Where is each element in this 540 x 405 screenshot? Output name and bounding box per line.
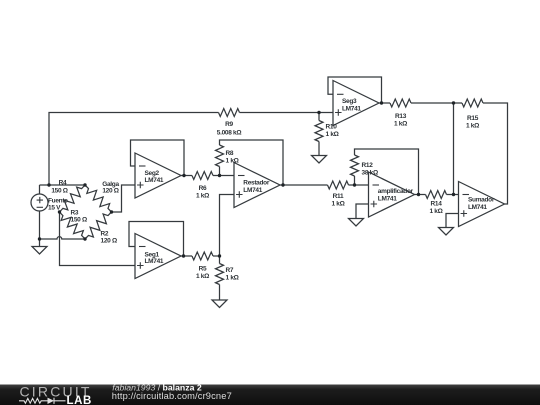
junction dot R5/R7 node [218,254,221,257]
junction dot Sumador - node [452,193,455,196]
wire Seg2 output to R6 [181,175,192,177]
svg-text:1 kΩ: 1 kΩ [196,273,209,280]
wire bridge left vertex down to Seg1 + [60,212,136,266]
resistor R3 (bridge bottom-left) [60,212,86,239]
op-amp amplificador [369,172,415,217]
resistor R8 with feedback loop [216,140,284,185]
svg-text:R2: R2 [101,231,109,238]
svg-text:R15: R15 [467,115,479,122]
resistor R6 [192,172,213,180]
svg-text:R4: R4 [59,180,67,187]
svg-text:R12: R12 [362,162,374,169]
wire amplificador + to ground [356,204,369,219]
wire source top to bridge top vertex [40,184,86,186]
junction dot bridge left vertex [58,210,61,213]
voltage source V1 Fuente [31,185,48,239]
wire Sumador + to ground [446,214,459,228]
svg-text:150 Ω: 150 Ω [51,188,67,195]
svg-text:LM741: LM741 [468,204,487,211]
wire R13 to node [411,102,454,104]
wire node to R15 and down right edge to Sumador output [454,103,508,204]
op-amp Sumador [459,182,505,227]
svg-text:LM741: LM741 [378,196,397,203]
junction dot Seg2 output [182,174,185,177]
ground below R10 [312,156,327,164]
op-amp Seg3 [333,81,379,126]
svg-text:5.008 kΩ: 5.008 kΩ [217,130,242,137]
wire R6 to Restador - input [213,175,234,177]
svg-text:1 kΩ: 1 kΩ [429,208,442,215]
resistor Galga (bridge top-right) [85,185,112,212]
CircuitLab logo resistor-diode icon [19,398,66,404]
svg-text:R6: R6 [199,185,207,192]
svg-text:R9: R9 [225,121,233,128]
svg-text:1 kΩ: 1 kΩ [226,275,239,282]
resistor R4 (bridge top-left) [60,185,86,212]
svg-text:1 kΩ: 1 kΩ [196,193,209,200]
resistor R14 [426,191,447,199]
svg-text:1 kΩ: 1 kΩ [394,121,407,128]
wire R14 to Sumador - input [447,194,459,196]
svg-text:Seg3: Seg3 [342,98,357,105]
Seg2 feedback loop wire [131,140,185,176]
svg-text:R14: R14 [430,201,442,208]
CircuitLab logo diode triangle [48,398,55,404]
resistor R13 [390,99,411,107]
resistor R11 [328,181,349,189]
junction dot bridge bottom vertex [83,237,86,240]
svg-text:R7: R7 [226,267,234,274]
svg-text:1 kΩ: 1 kΩ [226,158,239,165]
svg-text:R11: R11 [333,193,344,200]
svg-text:150 Ω: 150 Ω [71,217,87,224]
footer bar [0,385,540,405]
svg-text:120 Ω: 120 Ω [102,188,118,195]
ground below Sumador + [439,228,454,236]
svg-text:120 Ω: 120 Ω [101,238,117,245]
op-amp Seg1 [135,234,181,279]
junction dot riser/bridge-top-wire [47,183,50,186]
resistor R12 with feedback loop [351,149,419,195]
junction dot R9/R10 node [317,111,320,114]
junction dot bridge right vertex [110,210,113,213]
junction dot Seg3 output [380,101,383,104]
wire R11 to amplificador - input [349,184,369,186]
junction dot amplificador output [417,193,420,196]
wire bridge right vertex to Seg2 + [112,185,136,212]
resistor R2 (bridge bottom-right) [85,212,112,239]
wire Restador + to R5/R7 node [220,195,235,257]
svg-text:15 V: 15 V [48,205,61,212]
junction dot Seg1 output [182,254,185,257]
ground below amplificador + [349,219,364,227]
svg-text:R10: R10 [326,124,338,131]
svg-text:http://circuitlab.com/cr9cne7: http://circuitlab.com/cr9cne7 [112,391,232,401]
svg-text:LM741: LM741 [145,177,164,184]
svg-text:Restador: Restador [243,180,270,187]
svg-text:38 kΩ: 38 kΩ [362,170,378,177]
svg-text:1 kΩ: 1 kΩ [331,201,344,208]
svg-text:Seg2: Seg2 [145,170,160,177]
svg-text:R8: R8 [226,150,234,157]
svg-text:Sumador: Sumador [468,197,495,204]
wire Seg1 output to R5 [181,255,192,257]
junction dot R11/R12 node [353,183,356,186]
wire source bottom to bridge bottom vertex with hop [40,237,86,239]
wire amplificador output to R14 [415,194,426,196]
junction dot Restador output [281,183,284,186]
svg-text:LM741: LM741 [243,187,262,194]
ground below R7 [212,300,227,308]
resistor R15 [462,99,483,107]
junction dot R6/R8 node [218,174,221,177]
wire riser to R9 rail [49,113,219,186]
svg-text:R13: R13 [395,113,407,120]
wire R5 to node [213,255,220,257]
junction dot source bottom [38,237,41,240]
svg-text:R5: R5 [199,266,207,273]
op-amp Seg2 [135,153,181,198]
wire Seg3 output to R13 [379,102,390,104]
svg-text:Fuente: Fuente [48,198,68,205]
wire node up from Sumador - to R13/R15 rail [453,103,455,195]
wire R9 to Seg3 + input [240,112,334,114]
svg-text:LM741: LM741 [145,258,164,265]
svg-text:LM741: LM741 [342,106,361,113]
svg-text:LAB: LAB [67,395,92,405]
junction dot bridge top vertex [83,183,86,186]
wire Restador output to R11 [280,184,328,186]
svg-text:amplificador: amplificador [378,188,414,195]
resistor R7 [216,256,224,300]
ground below source [32,239,47,254]
op-amp Restador [234,163,280,208]
resistor R5 [192,252,213,260]
resistor R9 [219,109,240,117]
resistor R10 [315,113,323,156]
svg-text:R3: R3 [71,210,79,217]
svg-text:1 kΩ: 1 kΩ [326,131,339,138]
junction dot R13/R15 node [452,101,455,104]
svg-text:1 kΩ: 1 kΩ [466,123,479,130]
Seg3 feedback loop wire [328,77,382,103]
Seg1 feedback loop wire [129,222,184,257]
